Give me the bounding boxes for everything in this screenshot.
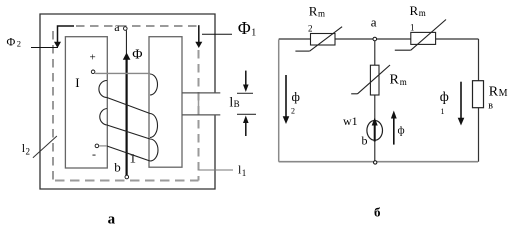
svg-text:Φ: Φ	[7, 35, 16, 49]
air gap dimension top arrow	[237, 71, 253, 94]
coil bottom wire	[99, 145, 107, 147]
coil bottom terminal	[95, 144, 99, 148]
coil top wire	[95, 72, 150, 74]
flux Phi1 direction arrow	[195, 25, 202, 48]
svg-text:1: 1	[441, 107, 445, 116]
air gap dimension bottom arrow	[237, 114, 256, 136]
flux Phi1 arrow right branch	[440, 82, 465, 126]
svg-text:I: I	[75, 75, 79, 90]
svg-text:m: m	[400, 77, 407, 87]
svg-text:m: m	[318, 9, 325, 19]
svg-text:1: 1	[410, 23, 415, 33]
air gap bottom edge	[182, 114, 220, 116]
wire bottom	[279, 161, 478, 163]
svg-text:+: +	[90, 52, 96, 64]
bottom node circle	[374, 161, 377, 164]
svg-text:-: -	[92, 147, 96, 161]
svg-text:2: 2	[17, 39, 21, 49]
flux Phi2 direction arrow	[54, 26, 74, 48]
svg-text:2: 2	[26, 147, 31, 157]
svg-text:Φ: Φ	[132, 48, 142, 63]
svg-text:В: В	[234, 99, 240, 109]
svg-text:w1: w1	[343, 114, 358, 128]
core outer boundary with air-gap break	[40, 14, 215, 189]
label line Phi1	[202, 33, 232, 35]
svg-text:ф: ф	[292, 89, 300, 104]
svg-text:1: 1	[130, 151, 137, 166]
svg-text:в: в	[488, 101, 493, 112]
svg-text:Φ: Φ	[238, 18, 251, 38]
label Phi1	[238, 18, 256, 39]
svg-text:М: М	[499, 88, 508, 99]
wire right	[478, 39, 480, 162]
svg-text:ф: ф	[440, 90, 449, 105]
resistor RMv (air gap reluctance)	[473, 81, 508, 112]
label Phi2	[7, 35, 22, 49]
svg-text:R: R	[390, 73, 400, 88]
coil top terminal	[91, 70, 95, 74]
wire left	[278, 40, 280, 162]
air gap top edge	[182, 92, 220, 94]
middle branch wire lower	[374, 95, 376, 162]
resistor Rm2 (left magnetic reluctance)	[295, 3, 342, 51]
label line Phi2	[31, 47, 58, 49]
label l1 right limb	[199, 163, 247, 179]
svg-text:m: m	[419, 8, 426, 18]
flux Phi2 arrow left branch	[283, 75, 300, 124]
svg-text:б: б	[374, 205, 381, 220]
label l2 left limb	[22, 136, 57, 158]
flux line through air gap	[198, 93, 200, 115]
MMF source w1	[367, 118, 383, 142]
svg-text:а: а	[108, 212, 116, 228]
winding w1	[99, 74, 158, 161]
node a	[371, 14, 377, 41]
label lB air gap length	[229, 96, 239, 111]
resistor Rm1 (right magnetic reluctance)	[395, 3, 446, 50]
svg-text:R: R	[410, 3, 419, 18]
resistor Rm (middle limb reluctance)	[351, 65, 407, 95]
node b	[114, 159, 128, 178]
svg-text:2: 2	[291, 107, 295, 116]
svg-text:2: 2	[308, 24, 313, 34]
flux phi arrow of middle branch	[391, 111, 405, 145]
flux path dashed midline	[53, 26, 199, 181]
left window	[65, 37, 107, 168]
wire top	[279, 38, 479, 40]
svg-text:R: R	[489, 84, 499, 99]
svg-text:a: a	[371, 14, 377, 29]
wire node a to center limb	[125, 31, 127, 57]
center limb flux arrow Phi	[123, 48, 143, 176]
right window	[149, 37, 182, 168]
svg-text:R: R	[309, 3, 318, 18]
node a	[114, 20, 127, 34]
svg-text:ф: ф	[398, 124, 405, 136]
svg-text:b: b	[362, 134, 368, 148]
middle branch wire upper	[374, 41, 376, 65]
svg-text:1: 1	[242, 168, 247, 178]
svg-text:b: b	[114, 159, 121, 174]
svg-text:1: 1	[251, 28, 256, 39]
svg-text:a: a	[114, 20, 120, 34]
